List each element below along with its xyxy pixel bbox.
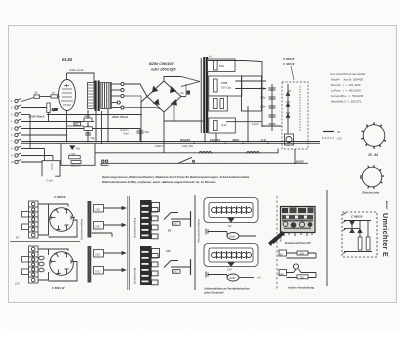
svg-text:Brennio ( = 101 3260: Brennio ( = 101 3260 bbox=[331, 83, 361, 87]
svg-text:Lötkontaktbau an Verstärkerbuc: Lötkontaktbau an Verstärkerbuchse bbox=[204, 287, 250, 291]
svg-text:(b): (b) bbox=[209, 56, 212, 58]
svg-text:300n: 300n bbox=[260, 96, 266, 100]
svg-text:12V: 12V bbox=[279, 272, 284, 276]
svg-text:Zwischensockelung: Zwischensockelung bbox=[81, 218, 84, 241]
svg-text:unter Ersatzteil: unter Ersatzteil bbox=[204, 291, 224, 295]
svg-text:Zentralumschltg: Zentralumschltg bbox=[134, 267, 137, 285]
svg-text:4,7kΩ: 4,7kΩ bbox=[69, 153, 76, 156]
svg-text:El - 84: El - 84 bbox=[369, 153, 379, 157]
svg-text:Gleichrichter: Gleichrichter bbox=[362, 191, 380, 195]
svg-text:240V 70mA: 240V 70mA bbox=[111, 115, 128, 119]
svg-text:750: 750 bbox=[300, 275, 305, 279]
svg-text:C-Lbi: C-Lbi bbox=[46, 179, 53, 183]
svg-text:100μ 16V: 100μ 16V bbox=[182, 144, 193, 148]
svg-text:C 30019: C 30019 bbox=[283, 62, 295, 66]
svg-text:20Ω: 20Ω bbox=[173, 223, 178, 226]
svg-text:BartibeMU1 = 2001071: BartibeMU1 = 2001071 bbox=[331, 100, 362, 104]
svg-text:Brückenstift bei 12V: Brückenstift bei 12V bbox=[285, 241, 311, 245]
svg-text:(3,4ml -: (3,4ml - bbox=[120, 128, 129, 132]
svg-text:1,5W: 1,5W bbox=[52, 109, 58, 112]
svg-text:6(12)V: 6(12)V bbox=[296, 159, 304, 163]
svg-text:OSO: OSO bbox=[95, 226, 100, 229]
svg-text:6V: 6V bbox=[337, 130, 341, 134]
svg-text:10n: 10n bbox=[180, 92, 185, 95]
svg-text:FurnaroMU+ = 701/4150: FurnaroMU+ = 701/4150 bbox=[331, 94, 364, 98]
svg-text:+6: +6 bbox=[257, 276, 261, 280]
svg-text:50μ: 50μ bbox=[91, 136, 96, 140]
svg-text:1,2μΩ: 1,2μΩ bbox=[252, 122, 259, 126]
svg-text:12V: 12V bbox=[166, 249, 171, 253]
svg-text:Anlass-Anschaltung: Anlass-Anschaltung bbox=[287, 286, 314, 290]
svg-text:Mauler Apr.Nr. 926/400: Mauler Apr.Nr. 926/400 bbox=[331, 78, 363, 82]
svg-text:6V: 6V bbox=[168, 229, 171, 233]
svg-text:100μ/6V: 100μ/6V bbox=[210, 138, 220, 142]
svg-text:OSO: OSO bbox=[95, 271, 100, 274]
svg-text:C 8601 W: C 8601 W bbox=[52, 286, 65, 290]
svg-text:Zentralumschaltung: Zentralumschaltung bbox=[134, 217, 137, 239]
svg-text:68Ω/r: 68Ω/r bbox=[233, 138, 240, 142]
svg-text:ELBI: ELBI bbox=[230, 235, 236, 239]
svg-text:4Ωn: 4Ωn bbox=[76, 147, 81, 150]
svg-text:10kΩm: 10kΩm bbox=[155, 144, 163, 148]
svg-text:400Ω: 400Ω bbox=[84, 114, 90, 118]
svg-text:C 86019: C 86019 bbox=[351, 215, 363, 219]
svg-text:heiße Anode: heiße Anode bbox=[69, 68, 84, 72]
svg-text:100 Ω/g: 100 Ω/g bbox=[221, 86, 231, 90]
svg-text:oder 250C/Q5: oder 250C/Q5 bbox=[151, 68, 176, 72]
svg-text:B250 C90/100: B250 C90/100 bbox=[149, 62, 174, 66]
svg-text:100μ 25V: 100μ 25V bbox=[71, 165, 82, 168]
svg-text:50μ: 50μ bbox=[145, 130, 150, 134]
svg-text:LoPorro ( = 801/3260: LoPorro ( = 801/3260 bbox=[331, 89, 361, 93]
svg-text:20Ω: 20Ω bbox=[173, 271, 178, 274]
svg-text:250: 250 bbox=[300, 252, 305, 256]
svg-text:Heizungsumschaltung: Heizungsumschaltung bbox=[198, 219, 201, 243]
svg-text:Widerstandswerte 2x50μ, unphas: Widerstandswerte 2x50μ, unphasen, wenn +… bbox=[102, 180, 216, 184]
svg-text:Spannungsmesser (Röhrenvoltmet: Spannungsmesser (Röhrenvoltmeter), Meßwe… bbox=[102, 175, 250, 179]
svg-text:1=Ω: 1=Ω bbox=[261, 138, 267, 142]
svg-text:500n: 500n bbox=[260, 105, 266, 109]
svg-text:700n: 700n bbox=[260, 87, 266, 91]
svg-text:6V: 6V bbox=[280, 252, 283, 256]
svg-text:ELBI: ELBI bbox=[230, 276, 236, 280]
svg-text:EL84: EL84 bbox=[62, 57, 73, 62]
svg-text:(1)Ω: (1)Ω bbox=[221, 123, 227, 127]
svg-text:USO: USO bbox=[95, 254, 100, 257]
svg-text:C 60014: C 60014 bbox=[283, 57, 295, 61]
svg-text:1750: 1750 bbox=[221, 81, 228, 85]
svg-text:(B): (B) bbox=[35, 93, 38, 95]
svg-text:12V: 12V bbox=[337, 137, 342, 141]
svg-text:(b): (b) bbox=[52, 93, 55, 95]
svg-text:600μ/6V: 600μ/6V bbox=[180, 138, 190, 142]
svg-text:zum Anschluß an die Geräte: zum Anschluß an die Geräte bbox=[329, 72, 366, 76]
svg-text:4ml): 4ml) bbox=[124, 132, 129, 136]
svg-text:USO: USO bbox=[95, 209, 100, 212]
svg-text:Bauart: Bauart bbox=[385, 201, 389, 209]
svg-text:C 60019: C 60019 bbox=[54, 195, 66, 199]
svg-text:65Ω: 65Ω bbox=[219, 64, 224, 68]
svg-text:Umrichter E: Umrichter E bbox=[381, 213, 390, 257]
svg-text:220V 50mA: 220V 50mA bbox=[28, 114, 45, 118]
